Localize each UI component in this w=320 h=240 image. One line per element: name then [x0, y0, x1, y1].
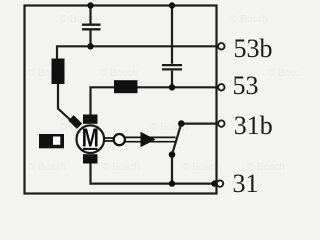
- motor M1 top brush: [83, 115, 98, 124]
- wire capacitor C1 top lead: [89, 6, 91, 24]
- enclosure border: [25, 6, 217, 194]
- linkage double line to switch: [125, 136, 176, 138]
- terminal 53: [218, 84, 224, 90]
- svg-text:31: 31: [233, 169, 259, 198]
- wire 53b line with corner down to resistor R1: [57, 46, 216, 59]
- terminal 53b: [218, 43, 224, 49]
- svg-text:© Bosch: © Bosch: [230, 14, 268, 25]
- capacitor C1 plates: [82, 25, 101, 30]
- node: 53b line / C1 junction: [87, 43, 93, 49]
- node: switch lower contact: [169, 151, 176, 158]
- permanent magnet symbol: [39, 134, 64, 148]
- svg-text:© Bosch: © Bosch: [28, 162, 66, 173]
- svg-text:53b: 53b: [234, 34, 273, 63]
- crank ring: [114, 134, 125, 145]
- svg-text:© Bosch: © Bosch: [182, 162, 220, 173]
- wire switch contact to 31 line: [171, 155, 173, 184]
- resistor R1 (vertical): [52, 59, 65, 85]
- motor M1 bottom brush: [83, 154, 98, 163]
- node: 31 wire at border: [211, 180, 217, 186]
- linkage arrow head: [141, 132, 156, 147]
- svg-text:© Bosch: © Bosch: [100, 68, 138, 79]
- crank linkage: shaft double line: [104, 137, 114, 139]
- svg-text:M: M: [82, 123, 99, 152]
- wire motor bottom lead to 31 line: [91, 164, 217, 184]
- motor M1 letter: [82, 123, 99, 152]
- motor M1 body: [77, 125, 105, 153]
- node: 53 line / C2 junction: [169, 84, 175, 90]
- resistor R2 (horizontal): [114, 80, 138, 93]
- wire capacitor C2 top lead: [171, 6, 173, 64]
- wire capacitor C1 bottom lead: [89, 31, 91, 47]
- svg-text:53: 53: [233, 71, 259, 100]
- svg-text:© Bosch: © Bosch: [60, 14, 98, 25]
- wire capacitor C2 bottom lead: [171, 71, 173, 88]
- svg-text:© Bosch: © Bosch: [102, 162, 140, 173]
- node: switch upper contact: [178, 120, 185, 127]
- svg-text:© Bosch: © Bosch: [268, 68, 300, 79]
- terminal 31b: [218, 120, 224, 126]
- node: top border / C1 junction: [87, 2, 93, 8]
- node: top border / C2 junction: [169, 2, 175, 8]
- capacitor C2 plates: [162, 65, 182, 69]
- terminal 31: [217, 180, 223, 186]
- wire 53 line with corner down to motor top brush: [91, 87, 217, 115]
- switch lever arm: [172, 124, 181, 155]
- node: 31 line / switch junction: [169, 180, 175, 186]
- svg-text:31b: 31b: [234, 111, 273, 140]
- wire 31b line: [181, 122, 216, 124]
- wire resistor R1 lead down with diagonal to motor brush: [58, 84, 72, 121]
- motor M1 underline: [83, 148, 98, 150]
- motor M1 third brush (diagonal): [68, 115, 82, 129]
